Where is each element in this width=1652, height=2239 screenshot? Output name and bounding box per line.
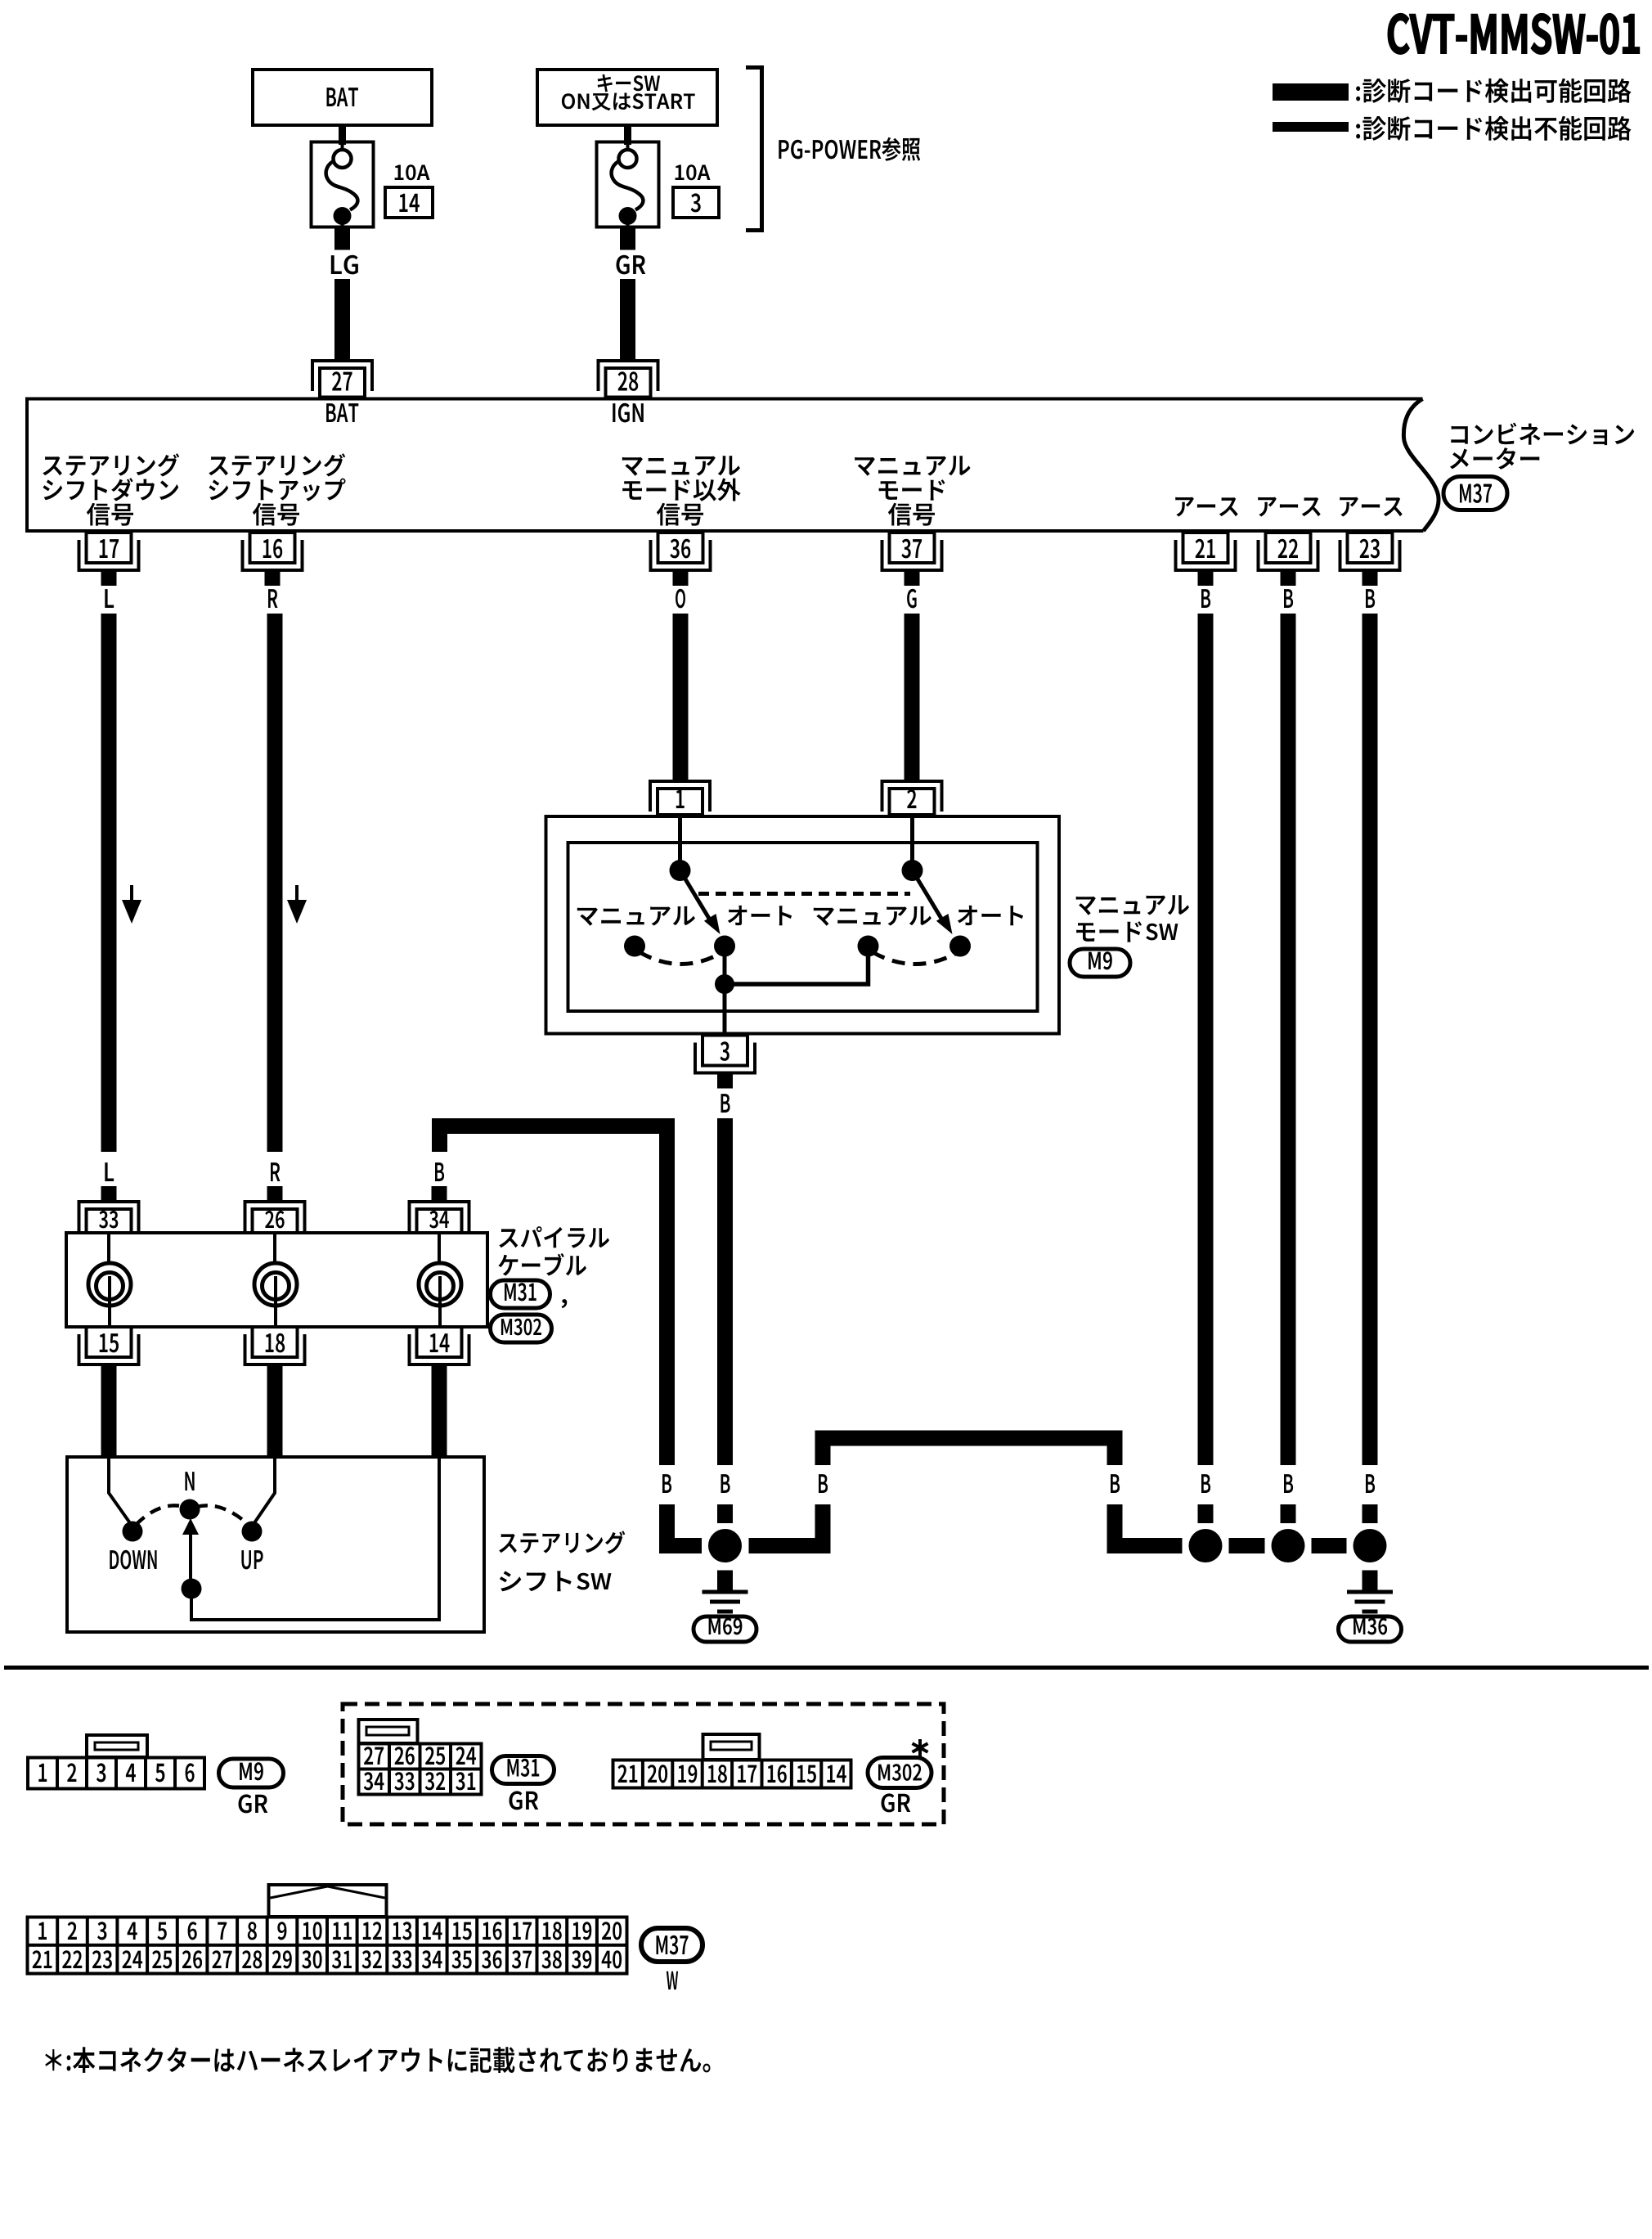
wire B from meter pin 23 to ground bus (1362, 614, 1378, 1465)
connector ref M9 oval (bottom) (219, 1759, 284, 1787)
ground ref M36 oval (1339, 1616, 1402, 1642)
steering switch lead from R wire to UP contact (252, 1459, 275, 1526)
label PG-POWER reference (779, 137, 920, 161)
ground bus right segment 2 (1229, 1538, 1265, 1553)
fuse 14 10A (312, 142, 374, 227)
fuse number box 3 (673, 187, 719, 218)
wire label R above spiral pin 26 (267, 1162, 283, 1200)
switch contact manual 2 dot (858, 936, 879, 957)
spiral cable connector pin 14 (408, 1327, 471, 1380)
spiral cable connector pin 26 (244, 1200, 307, 1233)
title CVT-MMSW-01 (1389, 14, 1640, 54)
switch contact common dot 2 (902, 860, 923, 881)
label N (185, 1472, 194, 1490)
switch pin 2 lead into contact (910, 818, 914, 865)
wire label B above M36 junction (1366, 1474, 1375, 1493)
ground bus upper horizontal (815, 1431, 1123, 1446)
wire L from meter pin 17 to spiral cable pin 33 (101, 614, 117, 1152)
spiral cable box M31/M302 (66, 1233, 487, 1327)
footnote: this connector is not shown in harness layout (45, 2047, 710, 2073)
label GR under M302 oval (882, 1793, 911, 1812)
meter connector pin 17 (78, 533, 141, 586)
steering switch common dot (182, 1579, 202, 1599)
connector view M302 8-pin (613, 1734, 851, 1788)
legend label :diagnosable circuit (1356, 79, 1631, 103)
steering switch lead from B wire to common (191, 1459, 439, 1620)
spiral coil symbol 2 (254, 1234, 297, 1325)
wire label B below pin 22 (1284, 589, 1293, 608)
switch contact manual 1 dot (624, 936, 645, 957)
meter label manual mode signal (855, 456, 970, 476)
legend thin-line symbol (non-diagnosable circuit) (1273, 122, 1349, 132)
meter connector pin 28 (597, 359, 660, 398)
wire B from meter pin 21 to ground bus (1198, 614, 1214, 1465)
wire label B on right riser (1111, 1474, 1120, 1493)
manual mode switch M9 inner box (568, 843, 1038, 1011)
manual mode switch M9 connector pin 1 (649, 780, 712, 815)
fuse 14 rating 10A (395, 164, 430, 180)
ground junction dot M36 (1353, 1529, 1387, 1562)
wire label B below pin 23 (1366, 589, 1375, 608)
connector ref M9 oval (1070, 949, 1130, 977)
manual mode switch M9 connector pin 3 (694, 1036, 756, 1089)
label DOWN (110, 1550, 156, 1570)
meter connector pin 27 (311, 359, 374, 398)
steering switch contact DOWN dot (123, 1522, 143, 1542)
manual mode switch M9 outer box (546, 816, 1060, 1034)
steering switch contact N dot (180, 1499, 200, 1520)
wire label B below pin 21 (1201, 589, 1210, 608)
label spiral cable (498, 1226, 609, 1275)
switch label auto 2 (958, 906, 1023, 925)
label W under M37 oval (667, 1971, 678, 1989)
meter connector pin 16 (241, 533, 304, 586)
wire label G below pin 37 (907, 589, 917, 609)
manual mode switch M9 connector pin 2 (881, 780, 944, 815)
wire label B on spiral ground wire (662, 1474, 671, 1493)
meter pin label BAT (326, 403, 358, 422)
spiral cable connector pin 18 (244, 1327, 307, 1380)
connector view M9 6-pin (28, 1735, 204, 1789)
combination meter box M37 outline (27, 399, 1424, 532)
meter label earth 2 (1258, 497, 1321, 517)
ground bus right riser down (1107, 1431, 1123, 1466)
ground bus right segment 1 (1107, 1538, 1183, 1553)
steering switch contact UP dot (242, 1522, 263, 1542)
connector ref M37 oval (bottom) (641, 1928, 703, 1962)
meter label steering shift down signal (43, 453, 179, 476)
label combination meter (1451, 423, 1634, 446)
power source box key switch ON/START (537, 70, 717, 125)
spiral cable connector pin 15 (78, 1327, 141, 1380)
meter connector pin 36 (649, 533, 712, 586)
wire BAT box to fuse 14 (339, 125, 346, 145)
dashed grouping box M31/M302 (343, 1704, 944, 1824)
connector view M31 8-pin (359, 1720, 482, 1795)
meter label earth 3 (1340, 497, 1403, 517)
wire G from meter pin 37 to switch pin 2 (905, 614, 920, 780)
meter connector pin 23 (1339, 533, 1402, 586)
ground symbol M36 (1362, 1571, 1378, 1590)
spiral cable connector pin 34 (408, 1200, 471, 1233)
wire label B above pin21 junction (1201, 1474, 1210, 1493)
switch common junction dot (715, 974, 734, 994)
separator line (4, 1666, 1649, 1670)
connector ref M31 oval (491, 1280, 550, 1308)
label GR under M31 oval (510, 1791, 539, 1810)
wire O from meter pin 36 to switch pin 1 (673, 614, 689, 780)
spiral coil symbol 3 (419, 1234, 461, 1325)
wire R from meter pin 16 to spiral cable pin 26 (267, 614, 283, 1152)
switch throw arrow 2 to auto contact (917, 878, 953, 934)
switch link pole2 to common (725, 949, 869, 984)
wire label B on riser (819, 1474, 828, 1493)
connector view M37 40-pin (28, 1885, 627, 1974)
ground junction dot pin21 wire (1189, 1529, 1223, 1562)
ground bus right segment 3 (1312, 1538, 1347, 1553)
dashed throw arc pole 2 (873, 952, 955, 964)
connector ref M302 oval (bottom) (868, 1758, 931, 1788)
switch pin 1 lead into contact (678, 818, 682, 865)
meter connector pin 21 (1174, 533, 1237, 586)
switch contact auto 2 dot (949, 936, 971, 957)
steering switch lead from L wire to DOWN contact (109, 1459, 132, 1526)
wire label B above spiral pin 34 (432, 1162, 447, 1200)
wire label R below pin 16 (268, 589, 278, 608)
wire label O below pin 36 (676, 589, 685, 609)
wire fuse 14 to pin 27, color LG (334, 227, 350, 250)
wire B stub above pin22 junction (1281, 1504, 1296, 1523)
wire B from switch pin 3 down to ground junction M69 (717, 1118, 733, 1465)
wire B stub above pin23 junction (1362, 1504, 1378, 1523)
dashed throw arc DOWN to N (136, 1505, 185, 1525)
wire label L above spiral pin 33 (101, 1162, 117, 1200)
ground junction dot M69 (708, 1529, 742, 1562)
switch common lead to pin 3 (723, 946, 727, 1036)
wire from spiral pin 14 to steering switch (432, 1380, 447, 1455)
meter connector pin 22 (1257, 533, 1320, 586)
fuse 3 10A (597, 142, 659, 227)
combination meter box M37 wavy right edge (1403, 399, 1439, 532)
dashed throw arc pole 1 (640, 952, 720, 964)
wire from spiral pin 15 to steering switch (101, 1380, 117, 1455)
label GR under M9 oval (239, 1794, 268, 1813)
meter label manual mode other signal (622, 456, 740, 476)
wire label B above pin22 junction (1284, 1474, 1293, 1493)
ground bus left segment into M69 junction (659, 1538, 702, 1553)
dashed throw arc N to UP (196, 1505, 249, 1525)
label manual mode SW (1076, 895, 1189, 942)
ground symbol M69 (717, 1571, 733, 1590)
direction arrow on wire L (122, 885, 141, 924)
steering switch arrow to N (182, 1518, 199, 1589)
ground ref M69 oval (694, 1616, 756, 1642)
wire fuse 3 to pin 28, color GR (620, 227, 635, 250)
wire label L below pin 17 (105, 589, 114, 608)
wire from spiral pin 18 to steering switch (267, 1380, 283, 1455)
power source box BAT (253, 70, 432, 125)
wire B elbow from spiral cable pin 34 to ground bus (432, 1118, 675, 1134)
meter connector pin 37 (881, 533, 944, 586)
comma after M31 (562, 1299, 568, 1308)
connector ref M37 oval (1443, 477, 1507, 510)
ground bus riser up (815, 1504, 831, 1553)
meter label earth 1 (1175, 497, 1238, 517)
label UP (241, 1550, 263, 1569)
wire key switch box to fuse 3 (624, 125, 631, 145)
wire B from meter pin 22 to ground bus (1281, 614, 1296, 1465)
switch throw arrow 1 to auto contact (685, 878, 721, 934)
spiral coil symbol 1 (88, 1234, 131, 1325)
fuse 3 rating 10A (676, 164, 711, 180)
direction arrow on wire R (287, 885, 307, 924)
fuse number box 14 (385, 187, 433, 218)
wire label B below switch pin 3 (721, 1094, 730, 1113)
PG-POWER reference bracket (746, 68, 762, 231)
legend thick-line symbol (diagnosable circuit) (1273, 83, 1349, 101)
meter pin label IGN (613, 403, 644, 423)
wire B stub above pin21 junction (1198, 1504, 1214, 1523)
legend label :non-diagnosable circuit (1356, 116, 1631, 141)
wire label B above M69 junction (721, 1474, 730, 1493)
connector ref M31 oval (bottom) (492, 1756, 554, 1784)
dashed link between switch poles (698, 892, 910, 896)
ground bus from M69 junction to riser (749, 1538, 831, 1553)
steering shift switch box (67, 1457, 484, 1632)
switch contact common dot 1 (670, 860, 691, 881)
asterisk footnote marker (913, 1739, 928, 1756)
connector ref M302 oval (491, 1315, 552, 1342)
label steering shift SW (499, 1531, 625, 1591)
spiral cable connector pin 33 (78, 1200, 141, 1233)
meter label steering shift up signal (209, 453, 345, 476)
switch label auto 1 (728, 906, 792, 925)
switch label manual 2 (814, 906, 931, 926)
switch label manual 1 (577, 906, 695, 926)
switch contact auto 1 dot (714, 936, 735, 957)
ground junction dot pin22 wire (1272, 1529, 1305, 1562)
